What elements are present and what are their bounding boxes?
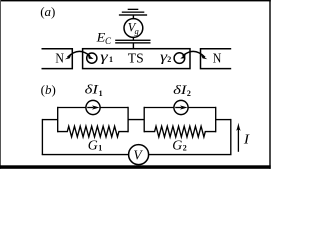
block 1 top wire <box>58 107 128 109</box>
figure frame left border <box>0 0 1 169</box>
Majorana gamma2 circle <box>174 53 185 64</box>
wire: outer left vertical <box>41 119 43 155</box>
svg-text:(a): (a) <box>40 4 55 19</box>
svg-text:N: N <box>213 52 222 67</box>
current source dI1 <box>86 100 100 114</box>
tunneling arrow gamma2 <-> right N (double headed arc) <box>180 51 207 59</box>
wire: right block to outer loop <box>216 119 231 121</box>
block 1 right wire <box>127 107 129 133</box>
svg-text:(b): (b) <box>41 82 56 97</box>
svg-text:TS: TS <box>128 52 144 67</box>
wire: left block to outer loop <box>42 119 57 121</box>
block 2 left wire <box>143 107 145 133</box>
voltage source Vg <box>124 19 143 38</box>
resistor G2 <box>144 126 216 137</box>
left N lead box <box>42 49 73 69</box>
resistor G1 <box>58 126 128 137</box>
Majorana gamma1 circle <box>87 53 97 63</box>
wire: ground to Vg source <box>132 15 134 19</box>
tunneling arrow gamma1 <-> left N (double headed arc) <box>65 51 94 59</box>
wire: capacitor to TS island <box>132 44 134 49</box>
figure frame top border <box>0 0 271 1</box>
block 2 right wire <box>215 107 217 133</box>
wire: Vg to gate capacitor <box>132 37 134 40</box>
block 1 left wire <box>57 107 59 133</box>
block 2 top wire <box>144 107 216 109</box>
ground symbol (top, inverted) <box>119 9 147 16</box>
current arrow I <box>237 128 239 152</box>
wire: bottom rail <box>42 154 232 156</box>
figure frame bottom thick rule <box>0 165 271 169</box>
TS island box <box>83 49 190 69</box>
wire: outer right vertical <box>230 119 232 155</box>
svg-text:N: N <box>55 52 64 67</box>
right N lead box <box>201 49 232 69</box>
voltmeter V <box>129 145 149 165</box>
current source dI2 <box>174 100 188 114</box>
capacitor E_C (gate) <box>115 40 150 41</box>
figure frame right border <box>269 0 270 169</box>
wire: middle connector between blocks <box>128 119 144 121</box>
